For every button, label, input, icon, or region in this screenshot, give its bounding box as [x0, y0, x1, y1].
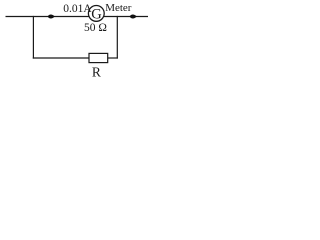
svg-text:G: G — [91, 6, 102, 22]
background — [0, 0, 181, 82]
current arrow right — [130, 14, 137, 18]
resistor R box — [89, 53, 108, 62]
current arrow left — [48, 14, 55, 18]
svg-text:R: R — [92, 65, 101, 80]
wire top-left segment — [6, 16, 89, 18]
wire top-right segment — [104, 16, 148, 18]
wire right vertical — [116, 16, 118, 59]
svg-text:50 Ω: 50 Ω — [84, 22, 107, 34]
wire bottom-left — [33, 57, 89, 59]
svg-text:0.01A: 0.01A — [63, 3, 92, 15]
svg-text:Meter: Meter — [105, 2, 132, 14]
galvanometer G (meter circle) — [88, 5, 104, 21]
wire left vertical — [32, 16, 34, 59]
wire bottom-right — [108, 57, 118, 59]
